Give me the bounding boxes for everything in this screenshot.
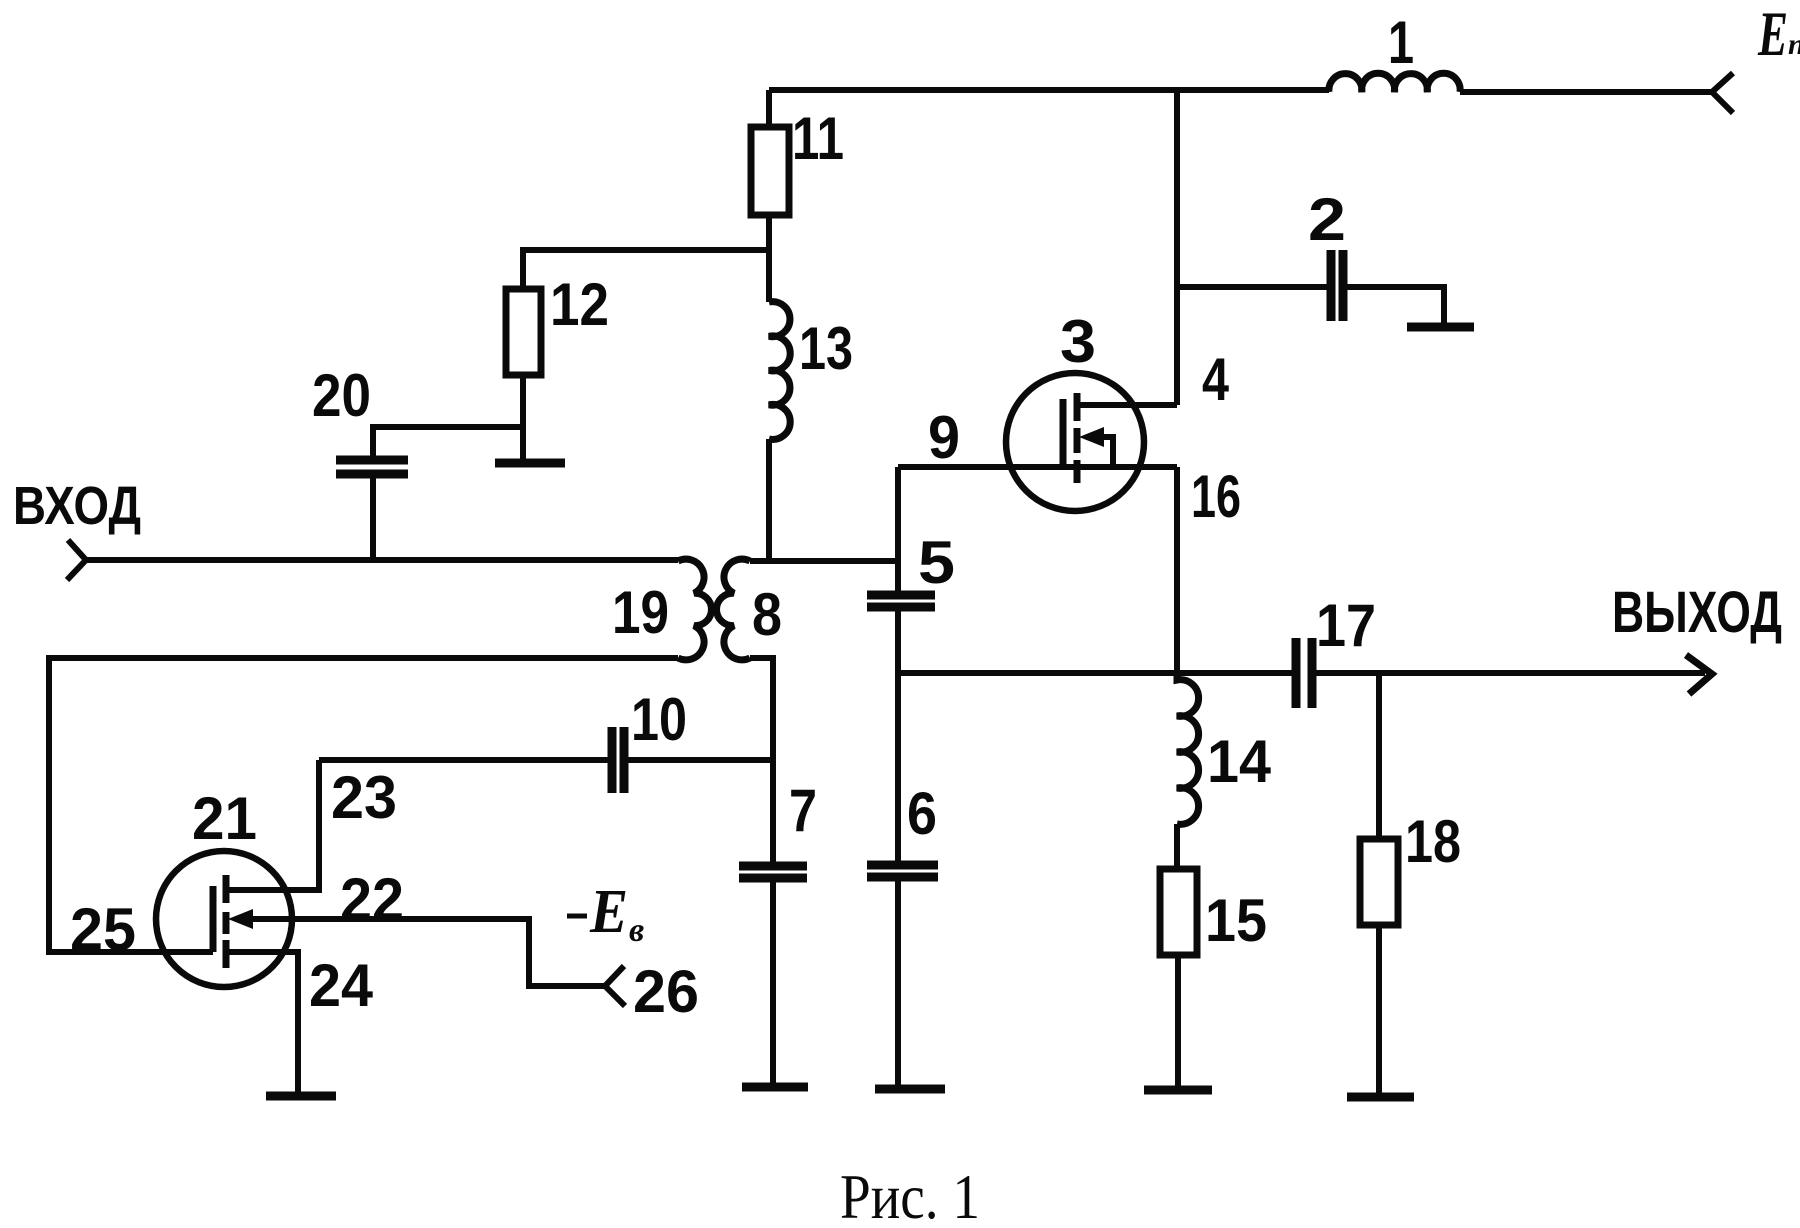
transistor T21 substrate arrow wire 22	[235, 919, 605, 986]
terminal output arrow	[1686, 655, 1712, 694]
wire node 9 vertical to C5	[895, 467, 901, 593]
wire output bus left segment	[898, 670, 1296, 676]
svg-text:ВХОД: ВХОД	[13, 476, 141, 536]
wire resistor 18 top lead	[1376, 673, 1382, 839]
svg-text:20: 20	[312, 362, 371, 429]
capacitor C6	[867, 865, 938, 877]
svg-text:4: 4	[1202, 346, 1230, 413]
svg-text:6: 6	[907, 780, 937, 847]
transistor T3 gate bar	[1060, 399, 1067, 467]
capacitor C17	[1296, 638, 1312, 708]
ground for R15	[1144, 1086, 1212, 1095]
wire main vertical from top bus to transistor 3 drain	[1174, 90, 1180, 405]
svg-text:25: 25	[70, 896, 136, 963]
capacitor C2	[1331, 250, 1343, 321]
ground for C6	[875, 1085, 945, 1094]
transformer winding 19	[678, 559, 711, 660]
resistor R15	[1160, 869, 1197, 955]
resistor R11	[751, 127, 789, 215]
terminal input chevron	[67, 540, 86, 580]
svg-text:16: 16	[1191, 463, 1241, 530]
transistor T21 circle	[156, 851, 292, 987]
transistor T3 substrate arrow	[1086, 437, 1113, 467]
wire from R11 node to R12	[523, 250, 769, 289]
wire C5 bottom lead to output node	[895, 607, 901, 673]
wire winding 19 bottom lead to T21 gate	[49, 658, 678, 952]
wire R15 bottom lead	[1175, 955, 1181, 1090]
ground for R12	[495, 459, 565, 468]
wire capacitor 6 top lead	[895, 673, 901, 865]
resistor R18	[1360, 839, 1398, 925]
svg-text:ВЫХОД: ВЫХОД	[1612, 580, 1782, 645]
ground for C2	[1407, 323, 1474, 332]
svg-text:E: E	[589, 878, 628, 946]
wire capacitor 2 left lead	[1177, 284, 1331, 290]
capacitor C10	[612, 727, 624, 793]
ground for R18	[1347, 1093, 1414, 1102]
svg-text:Рис. 1: Рис. 1	[840, 1161, 980, 1228]
svg-text:8: 8	[752, 581, 782, 648]
svg-text:п: п	[1788, 28, 1800, 61]
capacitor C20	[336, 460, 408, 474]
ground for T21	[266, 1092, 336, 1101]
svg-text:17: 17	[1316, 592, 1376, 659]
wire capacitor 6 bottom lead	[895, 877, 901, 1089]
wire capacitor 20 top lead	[373, 427, 523, 460]
transistor T3 circle	[1006, 373, 1144, 511]
svg-text:9: 9	[928, 404, 960, 471]
wire inductor 14 bottom lead	[1174, 824, 1180, 869]
svg-text:3: 3	[1060, 308, 1096, 375]
svg-text:2: 2	[1308, 186, 1346, 253]
wire resistor 11 top lead	[766, 90, 772, 127]
wire inductor 13 bottom lead	[766, 439, 772, 561]
transistor T21 drain wire	[226, 887, 319, 893]
transistor T3 drain wire 4	[1077, 402, 1177, 408]
transistor T21 source bottom wire 24	[226, 952, 298, 1096]
wire R12 bottom lead to ground	[520, 375, 526, 463]
capacitor C7	[739, 866, 807, 878]
wire capacitor 2 right lead	[1343, 287, 1444, 327]
svg-text:15: 15	[1205, 887, 1267, 954]
svg-text:21: 21	[192, 785, 257, 852]
wire winding 8 bottom lead	[750, 658, 773, 760]
svg-text:22: 22	[340, 866, 404, 933]
wire output bus right segment	[1312, 670, 1705, 676]
wire resistor 11 bottom lead	[766, 215, 772, 302]
wire top supply bus left segment	[769, 87, 1329, 93]
svg-text:23: 23	[331, 764, 397, 831]
wire 16 from T3 source down to output bus	[1174, 467, 1180, 673]
wire input	[86, 557, 678, 563]
wire top supply bus right segment	[1460, 89, 1712, 95]
wire capacitor 20 bottom lead	[370, 474, 376, 560]
capacitor C5	[867, 595, 935, 607]
transformer winding 8	[717, 559, 750, 660]
svg-text:14: 14	[1207, 728, 1272, 795]
svg-text:11: 11	[792, 105, 844, 172]
inductor 13	[769, 302, 790, 440]
transistor T21 gate bar	[210, 886, 217, 952]
svg-text:7: 7	[789, 777, 817, 844]
svg-text:10: 10	[631, 686, 687, 753]
svg-text:5: 5	[918, 529, 955, 596]
terminal En chevron	[1712, 73, 1733, 113]
inductor 14	[1177, 673, 1199, 824]
svg-text:в: в	[629, 912, 644, 949]
svg-text:12: 12	[550, 271, 609, 338]
wire 23 from T21 drain up to C10	[226, 760, 319, 890]
transistor T3 source wire 9	[898, 464, 1177, 470]
svg-text:E: E	[1757, 0, 1788, 69]
terminal 26 chevron	[605, 966, 625, 1006]
svg-text:24: 24	[309, 952, 374, 1019]
svg-text:19: 19	[612, 579, 669, 646]
transistor T3 channel	[1074, 393, 1081, 483]
inductor 1	[1329, 73, 1460, 92]
transistor T21 channel	[223, 875, 230, 968]
svg-text:13: 13	[799, 315, 853, 382]
svg-text:26: 26	[633, 958, 699, 1025]
ground for C7	[742, 1083, 808, 1092]
wire C10 left lead	[319, 757, 612, 763]
wire R18 bottom lead	[1376, 925, 1382, 1097]
label -Eb	[567, 914, 587, 919]
wire C10 right lead	[624, 757, 773, 763]
svg-text:18: 18	[1405, 808, 1461, 875]
wire capacitor 7 top lead	[770, 760, 776, 866]
wire capacitor 7 bottom lead	[770, 878, 776, 1087]
resistor R12	[506, 289, 541, 375]
wire winding 8 top lead to C5	[750, 558, 898, 564]
svg-text:1: 1	[1388, 9, 1414, 76]
